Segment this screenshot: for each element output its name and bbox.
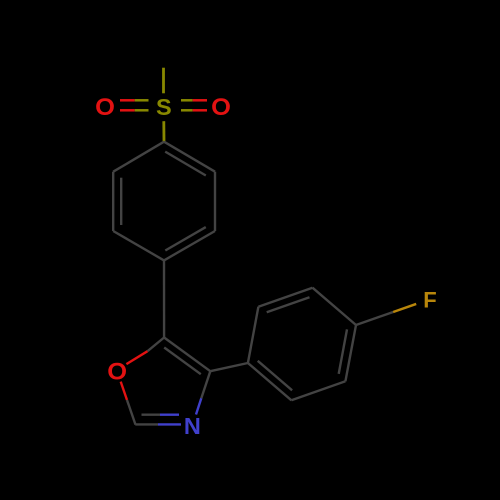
svg-text:O: O: [211, 95, 231, 121]
svg-text:F: F: [423, 287, 436, 312]
svg-text:O: O: [95, 95, 115, 121]
svg-text:O: O: [107, 359, 127, 385]
svg-text:N: N: [184, 413, 201, 439]
svg-text:S: S: [156, 94, 172, 120]
